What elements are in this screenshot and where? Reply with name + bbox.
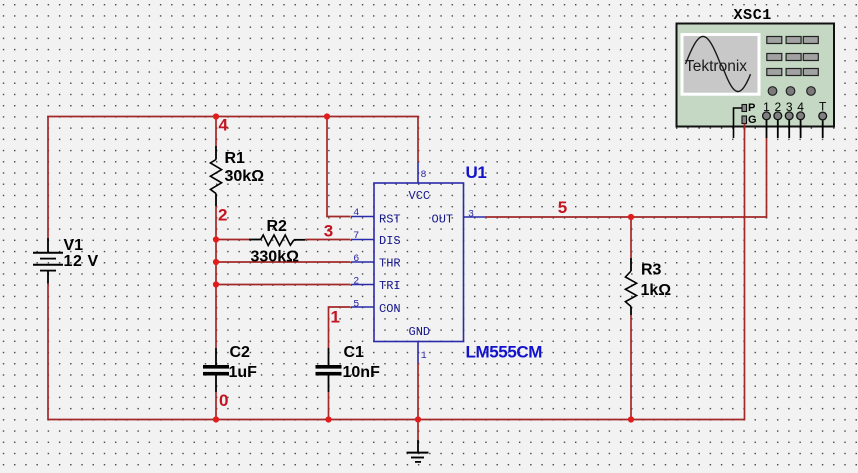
svg-text:4: 4 [219, 116, 229, 135]
svg-text:DIS: DIS [379, 234, 401, 248]
svg-text:1: 1 [421, 351, 427, 362]
svg-text:C1: C1 [344, 344, 365, 361]
svg-text:330kΩ: 330kΩ [251, 249, 300, 266]
svg-text:Tektronix: Tektronix [685, 58, 747, 75]
svg-text:LM555CM: LM555CM [466, 343, 543, 362]
svg-text:V1: V1 [64, 237, 84, 254]
svg-text:CON: CON [379, 302, 401, 316]
svg-text:RST: RST [379, 213, 401, 227]
svg-text:C2: C2 [230, 344, 251, 361]
svg-text:R2: R2 [267, 218, 288, 235]
svg-text:1uF: 1uF [229, 364, 258, 381]
svg-text:2: 2 [353, 277, 359, 288]
svg-text:4: 4 [353, 208, 359, 219]
svg-text:5: 5 [353, 299, 359, 310]
svg-text:5: 5 [558, 198, 567, 217]
svg-text:TRI: TRI [379, 279, 401, 293]
svg-text:8: 8 [421, 170, 427, 181]
svg-text:2: 2 [218, 206, 227, 225]
svg-text:G: G [748, 114, 757, 126]
svg-text:10nF: 10nF [343, 364, 381, 381]
svg-text:P: P [748, 102, 755, 114]
svg-text:12 V: 12 V [64, 253, 99, 270]
svg-text:GND: GND [409, 325, 431, 339]
svg-text:30kΩ: 30kΩ [225, 168, 265, 185]
svg-text:T: T [819, 100, 827, 114]
svg-text:R3: R3 [641, 262, 662, 279]
svg-text:VCC: VCC [409, 189, 431, 203]
svg-text:1: 1 [331, 308, 340, 327]
svg-text:7: 7 [353, 231, 359, 242]
svg-text:OUT: OUT [432, 213, 454, 227]
svg-text:3: 3 [324, 222, 333, 241]
svg-text:0: 0 [219, 391, 228, 410]
svg-text:R1: R1 [225, 150, 246, 167]
svg-text:U1: U1 [466, 163, 487, 182]
svg-text:3: 3 [468, 209, 474, 220]
svg-text:XSC1: XSC1 [734, 7, 772, 24]
svg-text:1kΩ: 1kΩ [641, 282, 672, 299]
svg-text:6: 6 [353, 254, 359, 265]
svg-text:THR: THR [379, 257, 401, 271]
